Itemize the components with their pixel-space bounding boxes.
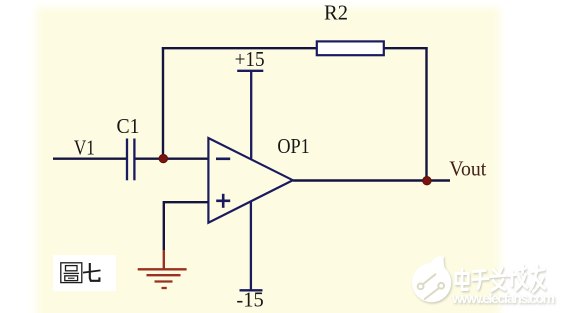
svg-text:R2: R2 [324, 1, 348, 25]
watermark logo inner traces [418, 274, 444, 300]
svg-text:Vout: Vout [449, 156, 486, 180]
wire: non-inverting input horizontal [163, 201, 208, 203]
ground [138, 269, 187, 288]
wire: C1 to inverting input [136, 157, 209, 159]
op-amp OP1 [208, 138, 292, 223]
svg-text:V1: V1 [74, 135, 95, 159]
wire: output horizontal [293, 179, 450, 181]
wire: feedback vertical left [162, 47, 164, 158]
svg-text:www.elecfans.com: www.elecfans.com [451, 290, 555, 306]
power -15 symbol [240, 201, 263, 290]
wire: input segment V1 to C1 [53, 157, 126, 159]
wire: ground lead red part [163, 250, 165, 269]
发 [491, 268, 506, 291]
figure caption box [53, 255, 116, 291]
wire: top horizontal right of R2 [384, 47, 428, 49]
svg-text:+15: +15 [235, 47, 265, 71]
node junction dot input [159, 154, 167, 162]
svg-text:C1: C1 [117, 114, 140, 138]
烧 [508, 266, 527, 290]
figure caption 圖七 glyph 圖 [61, 263, 82, 283]
电 [456, 270, 468, 290]
resistor R2 [317, 41, 384, 55]
子 [473, 271, 488, 289]
capacitor C1 [127, 139, 134, 181]
友 [531, 266, 545, 292]
op-amp plus sign [216, 194, 230, 208]
wire: top horizontal left of R2 [162, 47, 317, 49]
watermark brand characters [456, 266, 545, 292]
watermark logo circle [412, 256, 451, 302]
wire: ground lead navy part [163, 201, 165, 250]
svg-text:OP1: OP1 [277, 134, 309, 158]
op-amp minus sign [216, 158, 230, 161]
power +15 symbol [237, 71, 263, 159]
wire: right vertical to output [425, 47, 427, 181]
figure caption 圖七 glyph 七 [83, 263, 101, 281]
svg-text:-15: -15 [236, 288, 263, 312]
node junction dot output [423, 177, 431, 185]
